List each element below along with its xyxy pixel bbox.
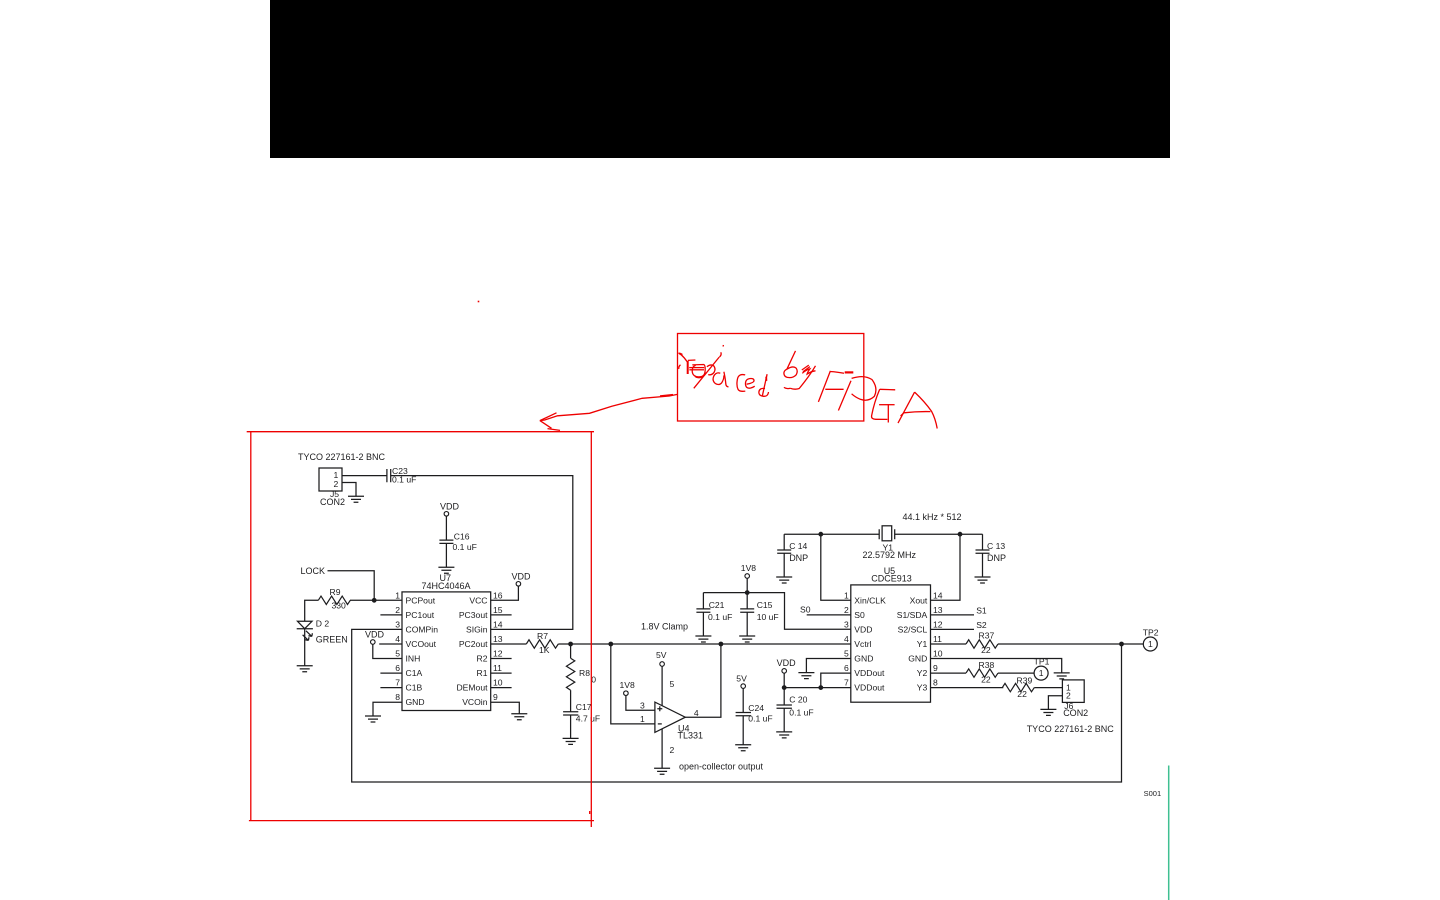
svg-text:C17: C17	[576, 702, 592, 712]
diode D2 green LED	[297, 621, 313, 628]
capacitor C17	[563, 712, 578, 715]
svg-text:7: 7	[844, 678, 849, 688]
wire GND pin10 to ground	[931, 659, 1062, 673]
wire rail to C15	[746, 593, 748, 609]
ground at C14	[776, 577, 792, 583]
test point TP1	[1034, 666, 1048, 680]
svg-text:5: 5	[844, 649, 849, 659]
node junction crystal left	[818, 532, 823, 537]
wire COMPin pin3 to feedback	[352, 629, 1122, 782]
U7 pin 11 stub	[491, 672, 512, 674]
svg-text:S001: S001	[1144, 789, 1162, 798]
resistor R38	[966, 669, 998, 677]
U5 left pin numbers	[844, 590, 849, 687]
svg-text:VCOout: VCOout	[406, 639, 437, 649]
svg-text:TYCO 227161-2 BNC: TYCO 227161-2 BNC	[298, 452, 386, 462]
ground at op-amp	[654, 768, 670, 774]
node junction LOCK/R9/PCPout	[372, 598, 377, 603]
svg-text:VDD: VDD	[854, 624, 872, 634]
svg-text:C1B: C1B	[406, 683, 423, 693]
svg-text:10 uF: 10 uF	[757, 612, 779, 622]
U4 plus sign	[657, 706, 662, 711]
capacitor C21	[696, 609, 710, 612]
wire R37 to TP2	[998, 643, 1143, 645]
wire Y2 to R38	[931, 672, 967, 674]
red annotation box	[678, 334, 864, 422]
ground at C13	[975, 577, 991, 583]
U5 left pin names	[854, 595, 886, 692]
resistor R7	[526, 640, 558, 648]
node junction R7/R8	[568, 642, 573, 647]
wire inverting input branch	[611, 644, 655, 724]
wire R39 to J6	[1034, 687, 1062, 689]
svg-text:12: 12	[493, 649, 503, 659]
svg-text:7: 7	[395, 678, 400, 688]
wire S2	[931, 628, 975, 630]
svg-text:5V: 5V	[656, 650, 667, 660]
IC U5 CDCE913 body	[851, 585, 931, 702]
test point TP2	[1143, 637, 1157, 651]
svg-text:1: 1	[395, 590, 400, 600]
svg-text:9: 9	[933, 663, 938, 673]
red highlight box around PLL circuit	[247, 432, 594, 827]
svg-text:11: 11	[493, 663, 502, 673]
wire VDD to C16	[445, 516, 447, 540]
wire R7 to clamp rail	[558, 643, 851, 645]
svg-text:74HC4046A: 74HC4046A	[422, 581, 471, 591]
svg-text:5: 5	[395, 649, 400, 659]
wire 1V8 to rail	[746, 578, 748, 592]
svg-text:14: 14	[493, 619, 503, 629]
capacitor C14	[777, 550, 791, 553]
capacitor C15	[740, 609, 754, 612]
red handwriting FPGA	[818, 371, 937, 429]
svg-text:5: 5	[670, 679, 675, 689]
svg-text:0: 0	[591, 675, 596, 685]
svg-text:PC1out: PC1out	[406, 610, 435, 620]
wire Y1 to R37	[931, 643, 967, 645]
svg-text:11: 11	[933, 634, 942, 644]
svg-text:D 2: D 2	[316, 619, 330, 629]
ground at U7 pin8	[365, 716, 381, 722]
U7 pin 4 stub	[379, 643, 402, 645]
svg-text:C21: C21	[709, 600, 725, 610]
wire C23 to SIGin net	[391, 476, 573, 630]
svg-text:GND: GND	[406, 697, 425, 707]
U7 pin 6 stub	[380, 672, 402, 674]
svg-text:1: 1	[1148, 639, 1153, 649]
svg-text:2: 2	[670, 745, 675, 755]
wire C20 to ground	[783, 708, 785, 732]
U7 left pin numbers	[395, 590, 400, 702]
svg-text:C1A: C1A	[406, 668, 423, 678]
svg-text:VDD: VDD	[512, 572, 532, 582]
wire VDD to INH pin5	[373, 644, 402, 658]
svg-text:S2/SCL: S2/SCL	[898, 624, 928, 634]
svg-text:1V8: 1V8	[620, 680, 636, 690]
svg-text:CON2: CON2	[1063, 708, 1088, 718]
red handwriting by	[784, 351, 816, 389]
resistor R37	[966, 640, 998, 648]
svg-text:4: 4	[694, 708, 699, 718]
wire GND pin8 to ground	[373, 702, 402, 716]
node junction clamp/inverting input	[608, 642, 613, 647]
svg-text:0.1 uF: 0.1 uF	[708, 612, 732, 622]
svg-text:3: 3	[395, 619, 400, 629]
node junction 1V8/C15	[745, 590, 750, 595]
wire crystal right	[895, 533, 983, 535]
wire D2 to ground	[304, 629, 306, 666]
svg-text:14: 14	[933, 590, 943, 600]
svg-text:R39: R39	[1017, 676, 1033, 686]
svg-text:DNP: DNP	[987, 553, 1006, 563]
svg-text:S0: S0	[800, 604, 811, 614]
wire Xout branch	[931, 534, 961, 600]
svg-text:13: 13	[493, 634, 503, 644]
U7 right pin names	[456, 595, 488, 707]
svg-text:1: 1	[640, 714, 645, 724]
ground at C15	[739, 636, 755, 642]
svg-text:8: 8	[395, 692, 400, 702]
svg-text:0.1 uF: 0.1 uF	[453, 542, 477, 552]
op-amp U7 74HC4046A body	[402, 592, 491, 711]
svg-text:PCPout: PCPout	[406, 595, 436, 605]
svg-text:10: 10	[493, 678, 503, 688]
svg-text:TYCO 227161-2 BNC: TYCO 227161-2 BNC	[1027, 724, 1115, 734]
ground at U5 pin10	[1054, 673, 1070, 679]
svg-text:C24: C24	[748, 703, 764, 713]
svg-text:R1: R1	[477, 668, 488, 678]
svg-text:5V: 5V	[736, 674, 747, 684]
wire VCOin pin9 to ground	[491, 702, 520, 714]
svg-text:0.1 uF: 0.1 uF	[789, 707, 813, 717]
svg-text:TL331: TL331	[678, 731, 704, 741]
svg-text:22: 22	[1017, 689, 1027, 699]
svg-text:COMPin: COMPin	[406, 624, 439, 634]
U5 right pin names	[897, 595, 928, 692]
wire R38 to TP1	[998, 672, 1034, 674]
wire VDD down to VDDout rail	[783, 673, 785, 687]
wire to C13	[982, 534, 984, 550]
svg-text:VDDout: VDDout	[854, 683, 885, 693]
wire to C14	[783, 534, 785, 550]
wire C15 to ground	[746, 612, 748, 636]
svg-text:12: 12	[933, 619, 943, 629]
svg-text:2: 2	[395, 605, 400, 615]
svg-text:SIGin: SIGin	[466, 624, 488, 634]
resistor R39	[1002, 683, 1034, 691]
ground at C17	[563, 738, 579, 744]
svg-text:GND: GND	[854, 654, 873, 664]
redaction black bar	[270, 0, 1170, 158]
ground at C20	[776, 732, 792, 738]
wire C21 to ground	[702, 612, 704, 636]
svg-text:15: 15	[493, 605, 503, 615]
U7 pin 2 stub	[380, 614, 402, 616]
wire J6 pin2 to ground	[1048, 696, 1062, 710]
svg-text:22.5792 MHz: 22.5792 MHz	[863, 550, 917, 560]
svg-text:0.1 uF: 0.1 uF	[748, 714, 772, 724]
wire crystal left	[784, 533, 879, 535]
svg-text:330: 330	[332, 601, 347, 611]
svg-text:R7: R7	[537, 631, 548, 641]
op-amp U4 TL331 triangle	[655, 702, 685, 732]
svg-text:VCOin: VCOin	[462, 697, 488, 707]
svg-text:S1/SDA: S1/SDA	[897, 610, 928, 620]
svg-text:C 14: C 14	[789, 541, 807, 551]
wire op-amp pin2 to ground	[661, 729, 663, 769]
svg-text:VDDout: VDDout	[854, 668, 885, 678]
svg-text:6: 6	[395, 663, 400, 673]
U7 pin 15 stub	[491, 614, 512, 616]
svg-text:4: 4	[395, 634, 400, 644]
svg-text:Y3: Y3	[917, 683, 928, 693]
ground at J6	[1040, 709, 1056, 715]
svg-text:1: 1	[1039, 668, 1044, 678]
wire junction to R8	[570, 644, 572, 658]
red stray dot	[478, 301, 480, 303]
node junction crystal right	[958, 532, 963, 537]
svg-text:3: 3	[640, 701, 645, 711]
svg-text:TP1: TP1	[1034, 657, 1050, 667]
wire R9 right to U7 pin1	[350, 599, 402, 601]
red arrow to circuit	[540, 394, 677, 430]
wire C17 to ground	[570, 715, 572, 738]
ground at U5 pin5	[798, 673, 814, 679]
svg-text:1: 1	[844, 590, 849, 600]
svg-text:C16: C16	[454, 532, 470, 542]
svg-text:S2: S2	[976, 620, 987, 630]
svg-text:Xout: Xout	[910, 595, 928, 605]
wire 1V8 to non-inverting input	[626, 696, 655, 711]
svg-text:VCC: VCC	[469, 595, 487, 605]
wire J5 pin1 to C23	[342, 475, 387, 477]
svg-text:VDD: VDD	[777, 658, 797, 668]
wire rail to C21	[702, 593, 704, 609]
svg-text:8: 8	[933, 678, 938, 688]
ground at C16	[438, 567, 454, 573]
capacitor C20	[777, 705, 792, 708]
svg-text:1.8V Clamp: 1.8V Clamp	[641, 622, 688, 632]
wire VCC pin16 to VDD	[491, 586, 519, 600]
svg-text:PC2out: PC2out	[459, 639, 488, 649]
svg-text:CON2: CON2	[320, 497, 345, 507]
svg-text:CDCE913: CDCE913	[871, 574, 912, 584]
wire VDDout pin7 rail	[784, 687, 851, 689]
svg-text:2: 2	[1066, 690, 1071, 700]
green border line	[1168, 766, 1170, 900]
wire C14 to ground	[783, 553, 785, 577]
node junction VDD/C20	[782, 685, 787, 690]
D2 LED arrows	[303, 631, 313, 641]
wire C16 to ground	[445, 543, 447, 567]
wire pin6 branch	[821, 673, 851, 688]
svg-text:Vctrl: Vctrl	[854, 639, 871, 649]
svg-text:open-collector output: open-collector output	[679, 762, 764, 772]
ground at C21	[695, 636, 711, 642]
U7 left pin names	[406, 595, 439, 707]
red handwriting replaced	[679, 346, 769, 397]
wire 1V8 distribution rail	[703, 593, 850, 630]
svg-text:9: 9	[493, 692, 498, 702]
U7 pin 7 stub	[380, 687, 402, 689]
svg-text:1K: 1K	[539, 645, 550, 655]
capacitor C24	[736, 713, 751, 716]
connector J6	[1062, 680, 1084, 703]
svg-text:TP2: TP2	[1143, 627, 1159, 637]
svg-text:DNP: DNP	[789, 553, 808, 563]
wire R8 to C17	[570, 690, 572, 712]
capacitor C16	[439, 540, 453, 543]
wire Xin branch	[821, 534, 851, 600]
node junction op-amp output/Vctrl	[719, 642, 724, 647]
crystal Y1	[879, 529, 895, 539]
wire op-amp output to Vctrl rail	[685, 644, 721, 717]
wire C24 to ground	[742, 716, 744, 745]
U7 pin 10 stub	[491, 687, 512, 689]
svg-text:4: 4	[844, 634, 849, 644]
svg-text:1V8: 1V8	[741, 563, 757, 573]
svg-text:S0: S0	[854, 610, 865, 620]
ground at D2	[297, 666, 313, 672]
connector J5	[319, 468, 342, 491]
wire 5V to C24	[742, 688, 744, 712]
svg-text:LOCK: LOCK	[301, 566, 326, 576]
ground at U7 pin9	[511, 714, 527, 720]
U7 right pin numbers	[493, 590, 503, 702]
U7 pin 12 stub	[491, 658, 512, 660]
ground at J5	[348, 496, 364, 502]
svg-text:VDD: VDD	[365, 630, 385, 640]
svg-text:44.1 kHz * 512: 44.1 kHz * 512	[903, 512, 962, 522]
svg-text:16: 16	[493, 590, 503, 600]
svg-text:10: 10	[933, 649, 943, 659]
svg-text:R37: R37	[979, 631, 995, 641]
node junction TP2 feedback	[1119, 642, 1124, 647]
svg-text:R2: R2	[477, 654, 488, 664]
svg-text:3: 3	[844, 619, 849, 629]
ground at C24	[735, 745, 751, 751]
svg-text:GND: GND	[908, 654, 927, 664]
svg-text:13: 13	[933, 605, 943, 615]
wire Y3 to R39	[931, 687, 1004, 689]
resistor R8 vertical	[566, 658, 574, 690]
svg-text:Y1: Y1	[917, 639, 928, 649]
wire R9 left to D2	[305, 600, 319, 621]
svg-text:GREEN: GREEN	[316, 635, 348, 645]
svg-text:C15: C15	[757, 600, 773, 610]
svg-text:22: 22	[981, 674, 991, 684]
svg-text:2: 2	[844, 605, 849, 615]
wire LOCK to junction	[328, 571, 375, 601]
svg-text:S1: S1	[976, 606, 987, 616]
svg-text:2: 2	[334, 479, 339, 489]
wire J5 pin2 to ground	[342, 483, 356, 497]
wire S0 to pin2	[807, 614, 851, 616]
wire S1	[931, 614, 975, 616]
wire C13 to ground	[982, 553, 984, 577]
svg-text:6: 6	[844, 663, 849, 673]
svg-text:Xin/CLK: Xin/CLK	[854, 595, 886, 605]
wire pin5 GND to ground	[806, 659, 850, 673]
svg-text:INH: INH	[406, 654, 421, 664]
svg-text:PC3out: PC3out	[459, 610, 488, 620]
svg-text:R8: R8	[579, 668, 590, 678]
svg-text:DEMout: DEMout	[456, 683, 488, 693]
U4 minus sign	[658, 723, 662, 725]
svg-text:VDD: VDD	[440, 502, 460, 512]
resistor R9	[318, 596, 350, 604]
wire 5V to op-amp	[661, 666, 663, 706]
wire VDD to C20	[783, 688, 785, 705]
svg-text:R38: R38	[979, 660, 995, 670]
svg-text:C 20: C 20	[789, 695, 807, 705]
svg-text:R9: R9	[330, 587, 341, 597]
U5 right pin numbers	[933, 590, 943, 687]
capacitor C23	[387, 469, 391, 482]
node junction pin6 branch	[818, 685, 823, 690]
svg-text:4.7 uF: 4.7 uF	[576, 714, 600, 724]
svg-text:C 13: C 13	[987, 541, 1005, 551]
svg-text:Y2: Y2	[917, 668, 928, 678]
wire PC2out pin13 to R7	[491, 643, 527, 645]
svg-text:22: 22	[981, 645, 991, 655]
capacitor C13	[976, 550, 990, 553]
